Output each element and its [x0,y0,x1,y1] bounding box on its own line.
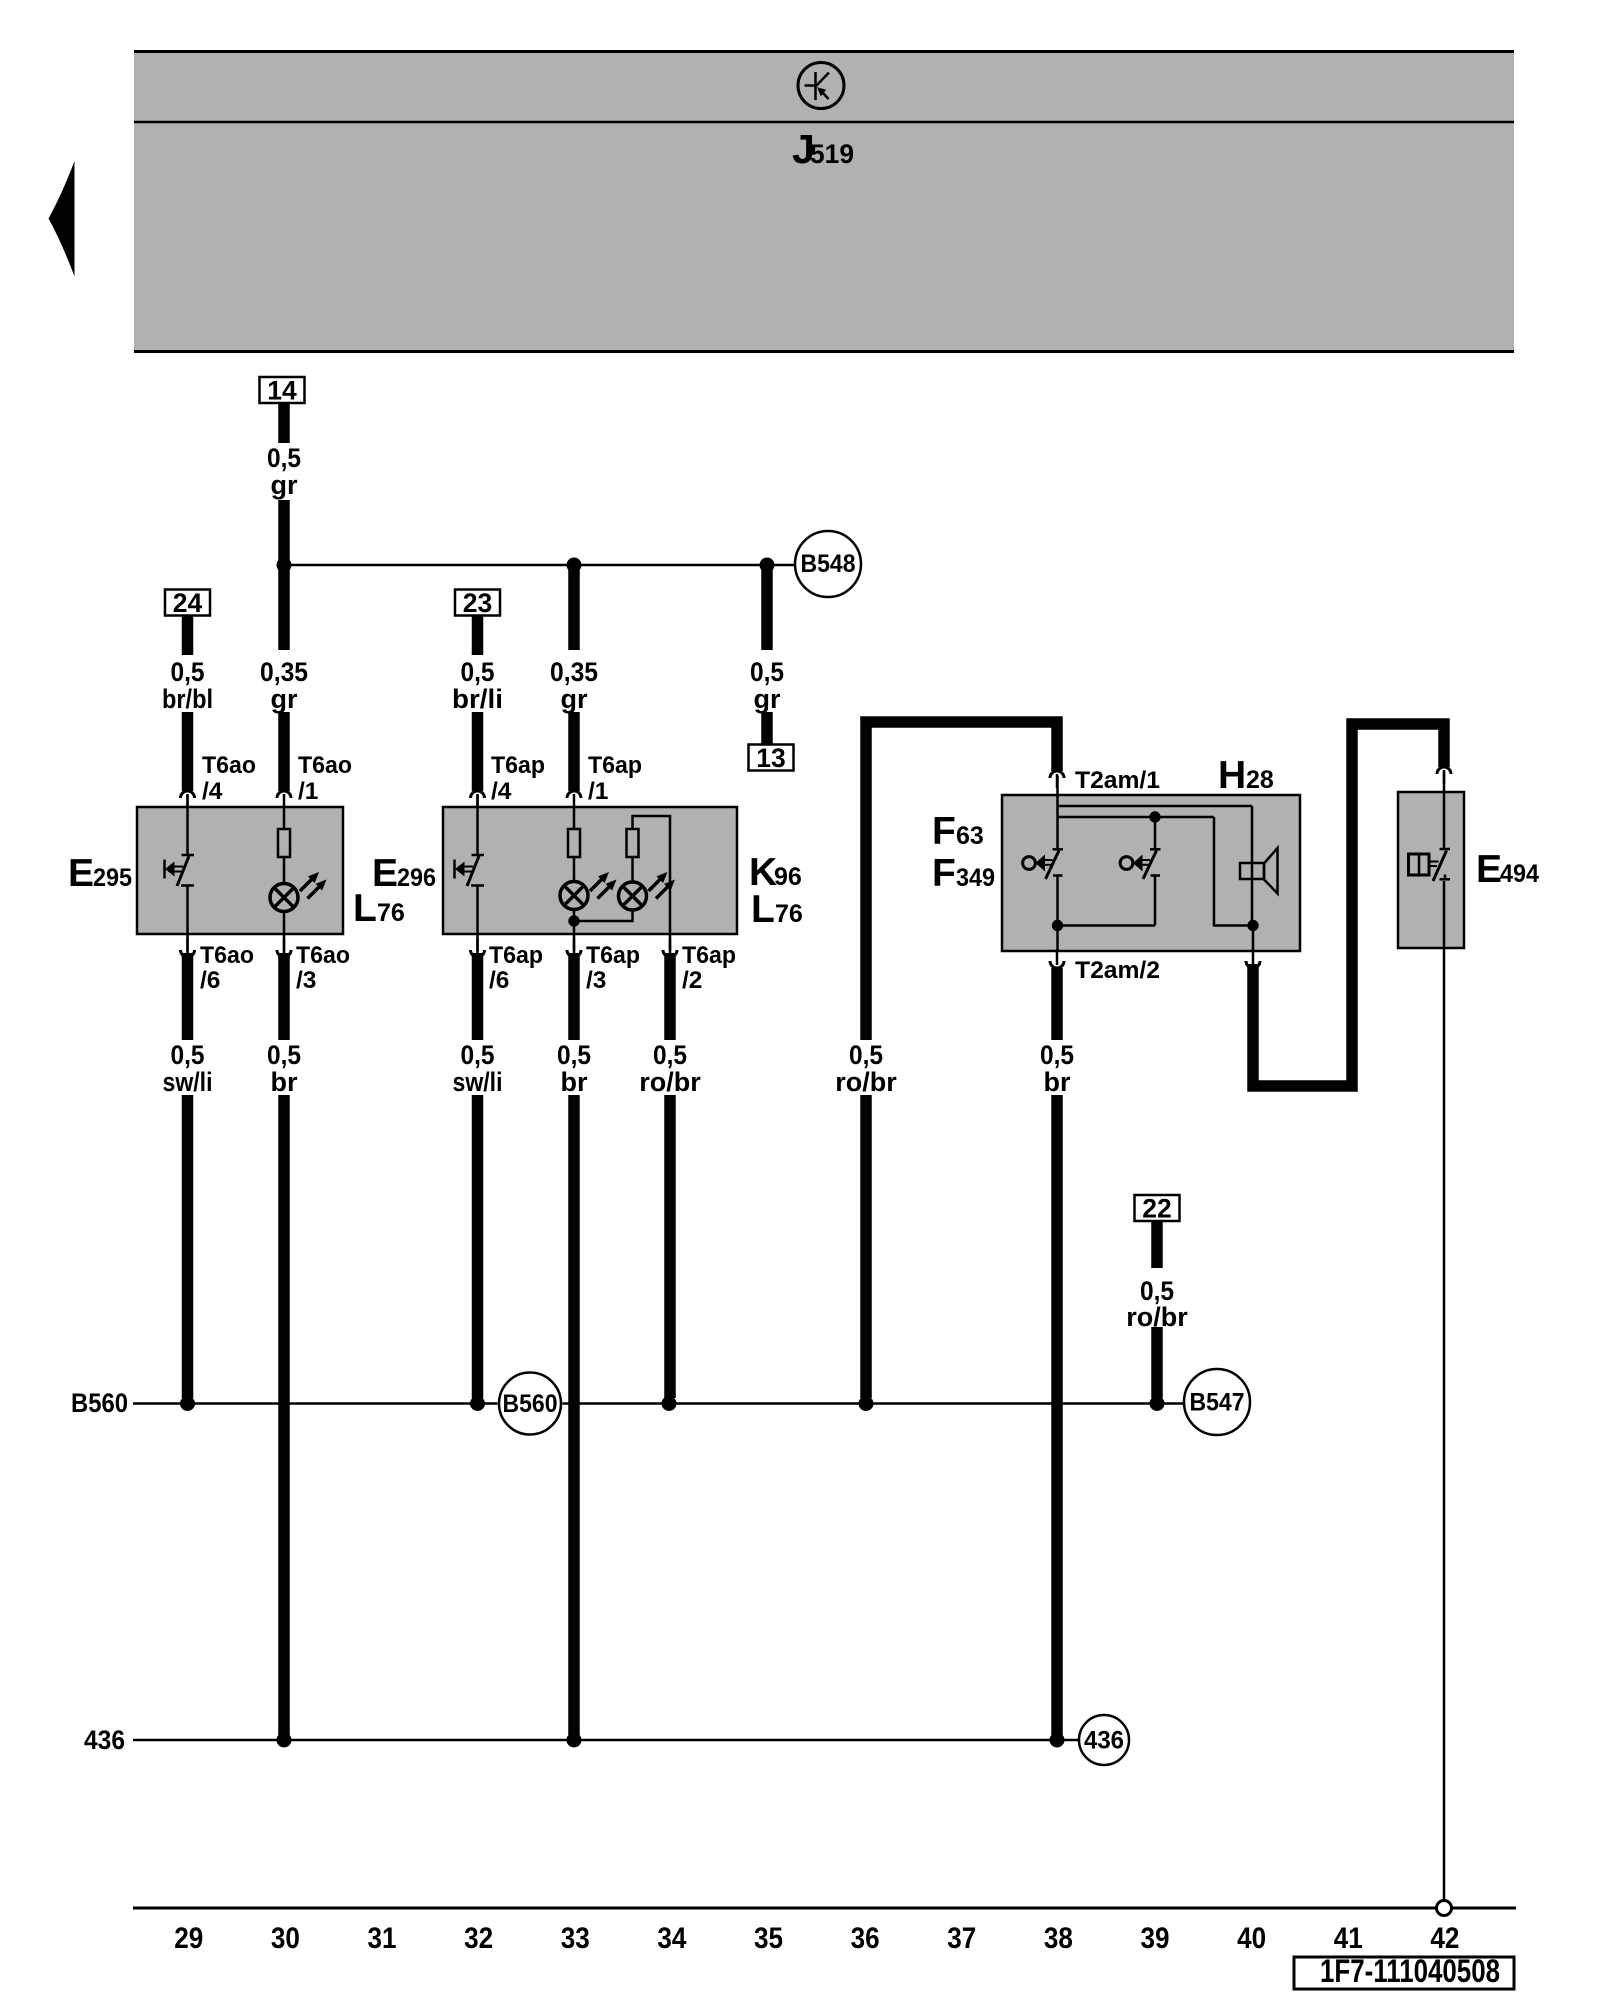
svg-text:T6ap: T6ap [491,752,545,779]
svg-text:41: 41 [1334,1922,1363,1955]
svg-text:295: 295 [93,864,132,892]
svg-text:gr: gr [271,470,298,500]
svg-text:29: 29 [174,1922,203,1955]
svg-text:B560: B560 [503,1390,558,1418]
svg-text:T6ao: T6ao [296,942,350,969]
svg-text:13: 13 [756,743,785,773]
svg-text:B548: B548 [801,550,856,578]
svg-text:0,5: 0,5 [267,1040,301,1070]
svg-text:br: br [1044,1067,1071,1097]
svg-text:B560: B560 [71,1388,128,1418]
svg-text:22: 22 [1142,1194,1171,1224]
svg-text:0,5: 0,5 [171,1040,205,1070]
svg-text:T6ap: T6ap [586,942,640,969]
svg-text:76: 76 [775,900,803,928]
svg-text:519: 519 [810,139,854,169]
svg-text:436: 436 [1084,1727,1124,1755]
svg-text:0,5: 0,5 [1040,1040,1074,1070]
svg-text:0,35: 0,35 [260,657,308,687]
svg-text:/6: /6 [200,967,220,994]
svg-text:T2am/1: T2am/1 [1075,767,1160,794]
svg-text:F: F [932,852,956,895]
svg-text:349: 349 [956,864,995,892]
svg-text:T2am/2: T2am/2 [1075,957,1160,984]
svg-text:br: br [271,1067,298,1097]
svg-text:L: L [353,887,377,930]
svg-text:0,35: 0,35 [550,657,598,687]
svg-text:F: F [932,810,956,853]
svg-text:33: 33 [561,1922,590,1955]
svg-text:31: 31 [368,1922,397,1955]
svg-text:B547: B547 [1190,1389,1245,1417]
svg-text:23: 23 [463,588,492,618]
svg-text:63: 63 [956,822,984,850]
svg-text:24: 24 [173,588,203,618]
svg-text:494: 494 [1500,860,1539,888]
svg-text:ro/br: ro/br [835,1067,897,1097]
svg-text:E: E [68,852,94,895]
svg-text:34: 34 [657,1922,686,1955]
svg-text:76: 76 [377,899,405,927]
svg-text:H: H [1218,754,1246,797]
svg-text:1F7-111040508: 1F7-111040508 [1320,1953,1500,1989]
svg-text:T6ao: T6ao [298,752,352,779]
svg-text:30: 30 [271,1922,300,1955]
svg-text:436: 436 [84,1725,125,1755]
svg-text:0,5: 0,5 [849,1040,883,1070]
svg-text:br/bl: br/bl [162,684,213,714]
svg-text:0,5: 0,5 [750,657,784,687]
svg-text:sw/li: sw/li [453,1067,503,1097]
svg-text:ro/br: ro/br [639,1067,701,1097]
svg-text:96: 96 [774,863,802,891]
svg-text:39: 39 [1141,1922,1170,1955]
svg-text:T6ao: T6ao [200,942,254,969]
svg-text:296: 296 [397,864,436,892]
svg-text:28: 28 [1246,766,1274,794]
svg-text:/6: /6 [489,967,509,994]
svg-text:/4: /4 [491,778,512,805]
svg-text:T6ap: T6ap [489,942,543,969]
svg-text:/4: /4 [202,778,223,805]
svg-text:0,5: 0,5 [557,1040,591,1070]
svg-text:br: br [561,1067,588,1097]
svg-text:sw/li: sw/li [163,1067,213,1097]
svg-text:36: 36 [851,1922,880,1955]
svg-text:42: 42 [1430,1922,1459,1955]
svg-text:/2: /2 [682,967,702,994]
svg-text:35: 35 [754,1922,783,1955]
svg-text:0,5: 0,5 [267,443,301,473]
svg-text:/1: /1 [298,778,318,805]
svg-text:/3: /3 [586,967,606,994]
svg-text:br/li: br/li [452,684,503,714]
svg-text:0,5: 0,5 [653,1040,687,1070]
svg-text:0,5: 0,5 [171,657,205,687]
svg-text:40: 40 [1237,1922,1266,1955]
svg-text:gr: gr [271,684,298,714]
svg-text:L: L [751,888,775,931]
svg-text:14: 14 [267,376,297,406]
svg-text:37: 37 [947,1922,976,1955]
svg-text:32: 32 [464,1922,493,1955]
svg-text:T6ap: T6ap [682,942,736,969]
svg-text:/1: /1 [588,778,608,805]
svg-text:38: 38 [1044,1922,1073,1955]
svg-text:0,5: 0,5 [461,657,495,687]
svg-text:gr: gr [754,684,781,714]
svg-text:0,5: 0,5 [461,1040,495,1070]
svg-text:T6ao: T6ao [202,752,256,779]
svg-text:/3: /3 [296,967,316,994]
svg-text:T6ap: T6ap [588,752,642,779]
svg-text:gr: gr [561,684,588,714]
svg-text:E: E [1476,848,1502,891]
